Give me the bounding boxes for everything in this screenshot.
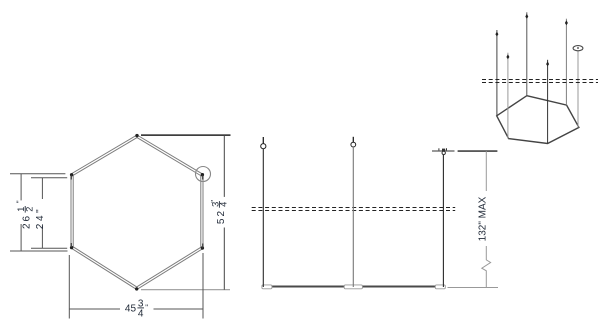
cable 3 canopy center block [442,149,445,152]
dimension line 45.75 right segment [154,308,204,310]
svg-text:": " [145,303,148,312]
ceiling plane dashed line lower (3D view) [482,82,598,84]
dimension text 45-3/4 inch [125,298,148,319]
dimension line 24 upper segment [41,178,43,199]
dimension line 132 lower segment with break [482,246,491,288]
dimension line 45.75 left segment [69,308,120,310]
svg-text:132" MAX: 132" MAX [477,196,488,241]
vertex connector top [135,134,138,137]
dimension line 26.5 lower segment [20,224,22,251]
fixture bar end connector right [435,285,445,289]
3D cable 2 (bottom-left vertex) [507,53,509,139]
vertex connector lower-right stub [202,244,204,248]
extension line 24 top [31,177,67,179]
svg-text:2: 2 [25,207,35,212]
vertex connector upper-right stub [202,176,204,180]
cable 1 hook stem [262,137,264,144]
dimension line 52.75 lower segment [223,228,225,290]
3D cable 3 arrowhead [525,14,528,19]
extension line 26.5 bottom [10,250,68,252]
fixture bar middle connector [344,285,362,289]
svg-text:24": 24" [35,207,46,229]
vertex connector lower-left [70,246,73,249]
vertex connector upper-left [70,173,73,176]
extension line 26.5 top [10,173,65,175]
vertex connector upper-left stub [70,176,72,180]
cable 3 ceiling canopy plate [432,150,455,152]
vertex connector lower-right [201,246,204,249]
fixture bar end connector left [262,285,272,289]
vertex connector lower-left stub [70,243,72,247]
extension line 45.75 left [68,255,70,319]
extension line 45.75 right [202,253,204,319]
hexagon frame (3D view) [497,96,579,144]
dimension text 132 inch MAX (rotated) [477,196,488,241]
dimension line 26.5 upper segment [20,174,22,201]
cable 2 hook loop [351,142,356,147]
extension line 132 top [458,150,498,152]
dimension text 52-3/4 inch (rotated) [210,200,229,224]
3D power feed canopy ellipse [573,46,583,51]
3D cable 5 (upper-right vertex) [565,19,567,105]
extension line 52.75 bottom (from bottom vertex) [141,289,230,291]
svg-text:4: 4 [219,202,229,207]
3D cable 5 arrowhead [565,20,568,25]
cable 3 canopy screw right [446,148,448,150]
svg-text:45: 45 [125,303,137,314]
fixture bar (elevation) [262,285,446,287]
cable 1 wire [262,149,264,287]
dimension line 132 upper segment [485,151,487,191]
3D cable 2 arrowhead [506,54,509,59]
ceiling plane dashed line upper (elevation) [252,207,456,209]
cable 2 hook stem [352,137,354,142]
hexagon frame outer line (plan view) [71,135,203,290]
3D cable 4 (bottom-right vertex) [547,60,549,144]
hexagon frame inner line (plan view) [73,138,201,287]
cable 3 wire [442,155,444,287]
ceiling plane dashed line lower (elevation) [252,210,456,212]
svg-text:52: 52 [216,209,227,224]
dimension line 52.75 upper segment [223,135,225,197]
dimension line 24 lower segment [41,226,43,249]
cable 3 canopy screw left [438,148,440,150]
power feed circle at upper-right vertex [196,167,211,182]
cable 1 hook loop [261,144,266,149]
extension line 24 bottom [31,247,67,249]
cable 3 hook loop [442,151,445,154]
extension line 132 bottom [448,287,499,289]
vertex connector upper-right [201,173,204,176]
svg-text:26: 26 [22,214,33,229]
extension line 52.75 top (from top vertex) [141,134,231,136]
cable 2 wire [352,147,354,287]
3D cable 1 arrowhead [495,32,498,37]
3D cable 6 (right vertex, power feed) [577,51,579,128]
3D cable 3 (top vertex) [526,12,528,95]
3D cable 1 (left vertex) [496,30,498,116]
3D cable 4 arrowhead [546,61,549,66]
ceiling plane dashed line upper (3D view) [482,79,598,81]
dimension text 24 inch (rotated) [35,207,46,229]
dimension text 26-1/2 inch (rotated) [16,200,35,229]
vertex connector bottom [135,287,138,290]
3D power feed canopy center dot [577,47,579,49]
svg-text:": " [16,200,25,203]
svg-text:": " [210,200,219,203]
svg-text:4: 4 [138,309,144,320]
